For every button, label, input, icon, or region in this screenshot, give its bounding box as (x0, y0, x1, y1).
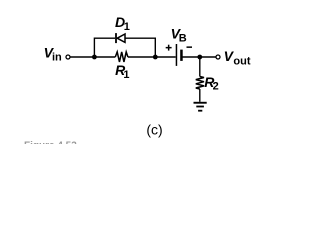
diode D1 (115, 33, 125, 43)
wire main right from battery to Vout terminal (182, 56, 216, 58)
battery minus sign (187, 46, 193, 48)
svg-text:B: B (179, 33, 187, 45)
label D1 (115, 14, 130, 33)
node junction at R2 branch (197, 55, 202, 60)
ground (194, 102, 207, 112)
label R2 (204, 74, 219, 93)
label Vout (224, 48, 251, 67)
battery plus sign (166, 45, 172, 51)
terminal Vout (216, 55, 220, 59)
wire main left from Vin terminal to battery (70, 56, 175, 58)
wire down to R2 (199, 57, 201, 77)
svg-text:Figure 4.53: Figure 4.53 (24, 141, 77, 144)
wire R2 to ground (199, 89, 201, 102)
svg-text:1: 1 (124, 21, 130, 33)
terminal Vin (66, 55, 70, 59)
node junction right of parallel pair (153, 55, 158, 60)
battery VB negative plate (180, 50, 183, 61)
svg-text:1: 1 (123, 69, 129, 81)
resistor R1 (115, 52, 128, 62)
label Vin (44, 45, 62, 64)
svg-text:(c): (c) (146, 121, 162, 137)
wire parallel loop (up left, top left segment) (94, 38, 155, 57)
label VB (171, 26, 187, 45)
svg-text:out: out (233, 56, 250, 68)
svg-text:in: in (52, 51, 62, 63)
label R1 (115, 62, 129, 81)
resistor R2 (196, 77, 204, 90)
svg-text:2: 2 (213, 81, 219, 93)
node junction left (92, 55, 97, 60)
battery VB positive plate (176, 44, 178, 66)
